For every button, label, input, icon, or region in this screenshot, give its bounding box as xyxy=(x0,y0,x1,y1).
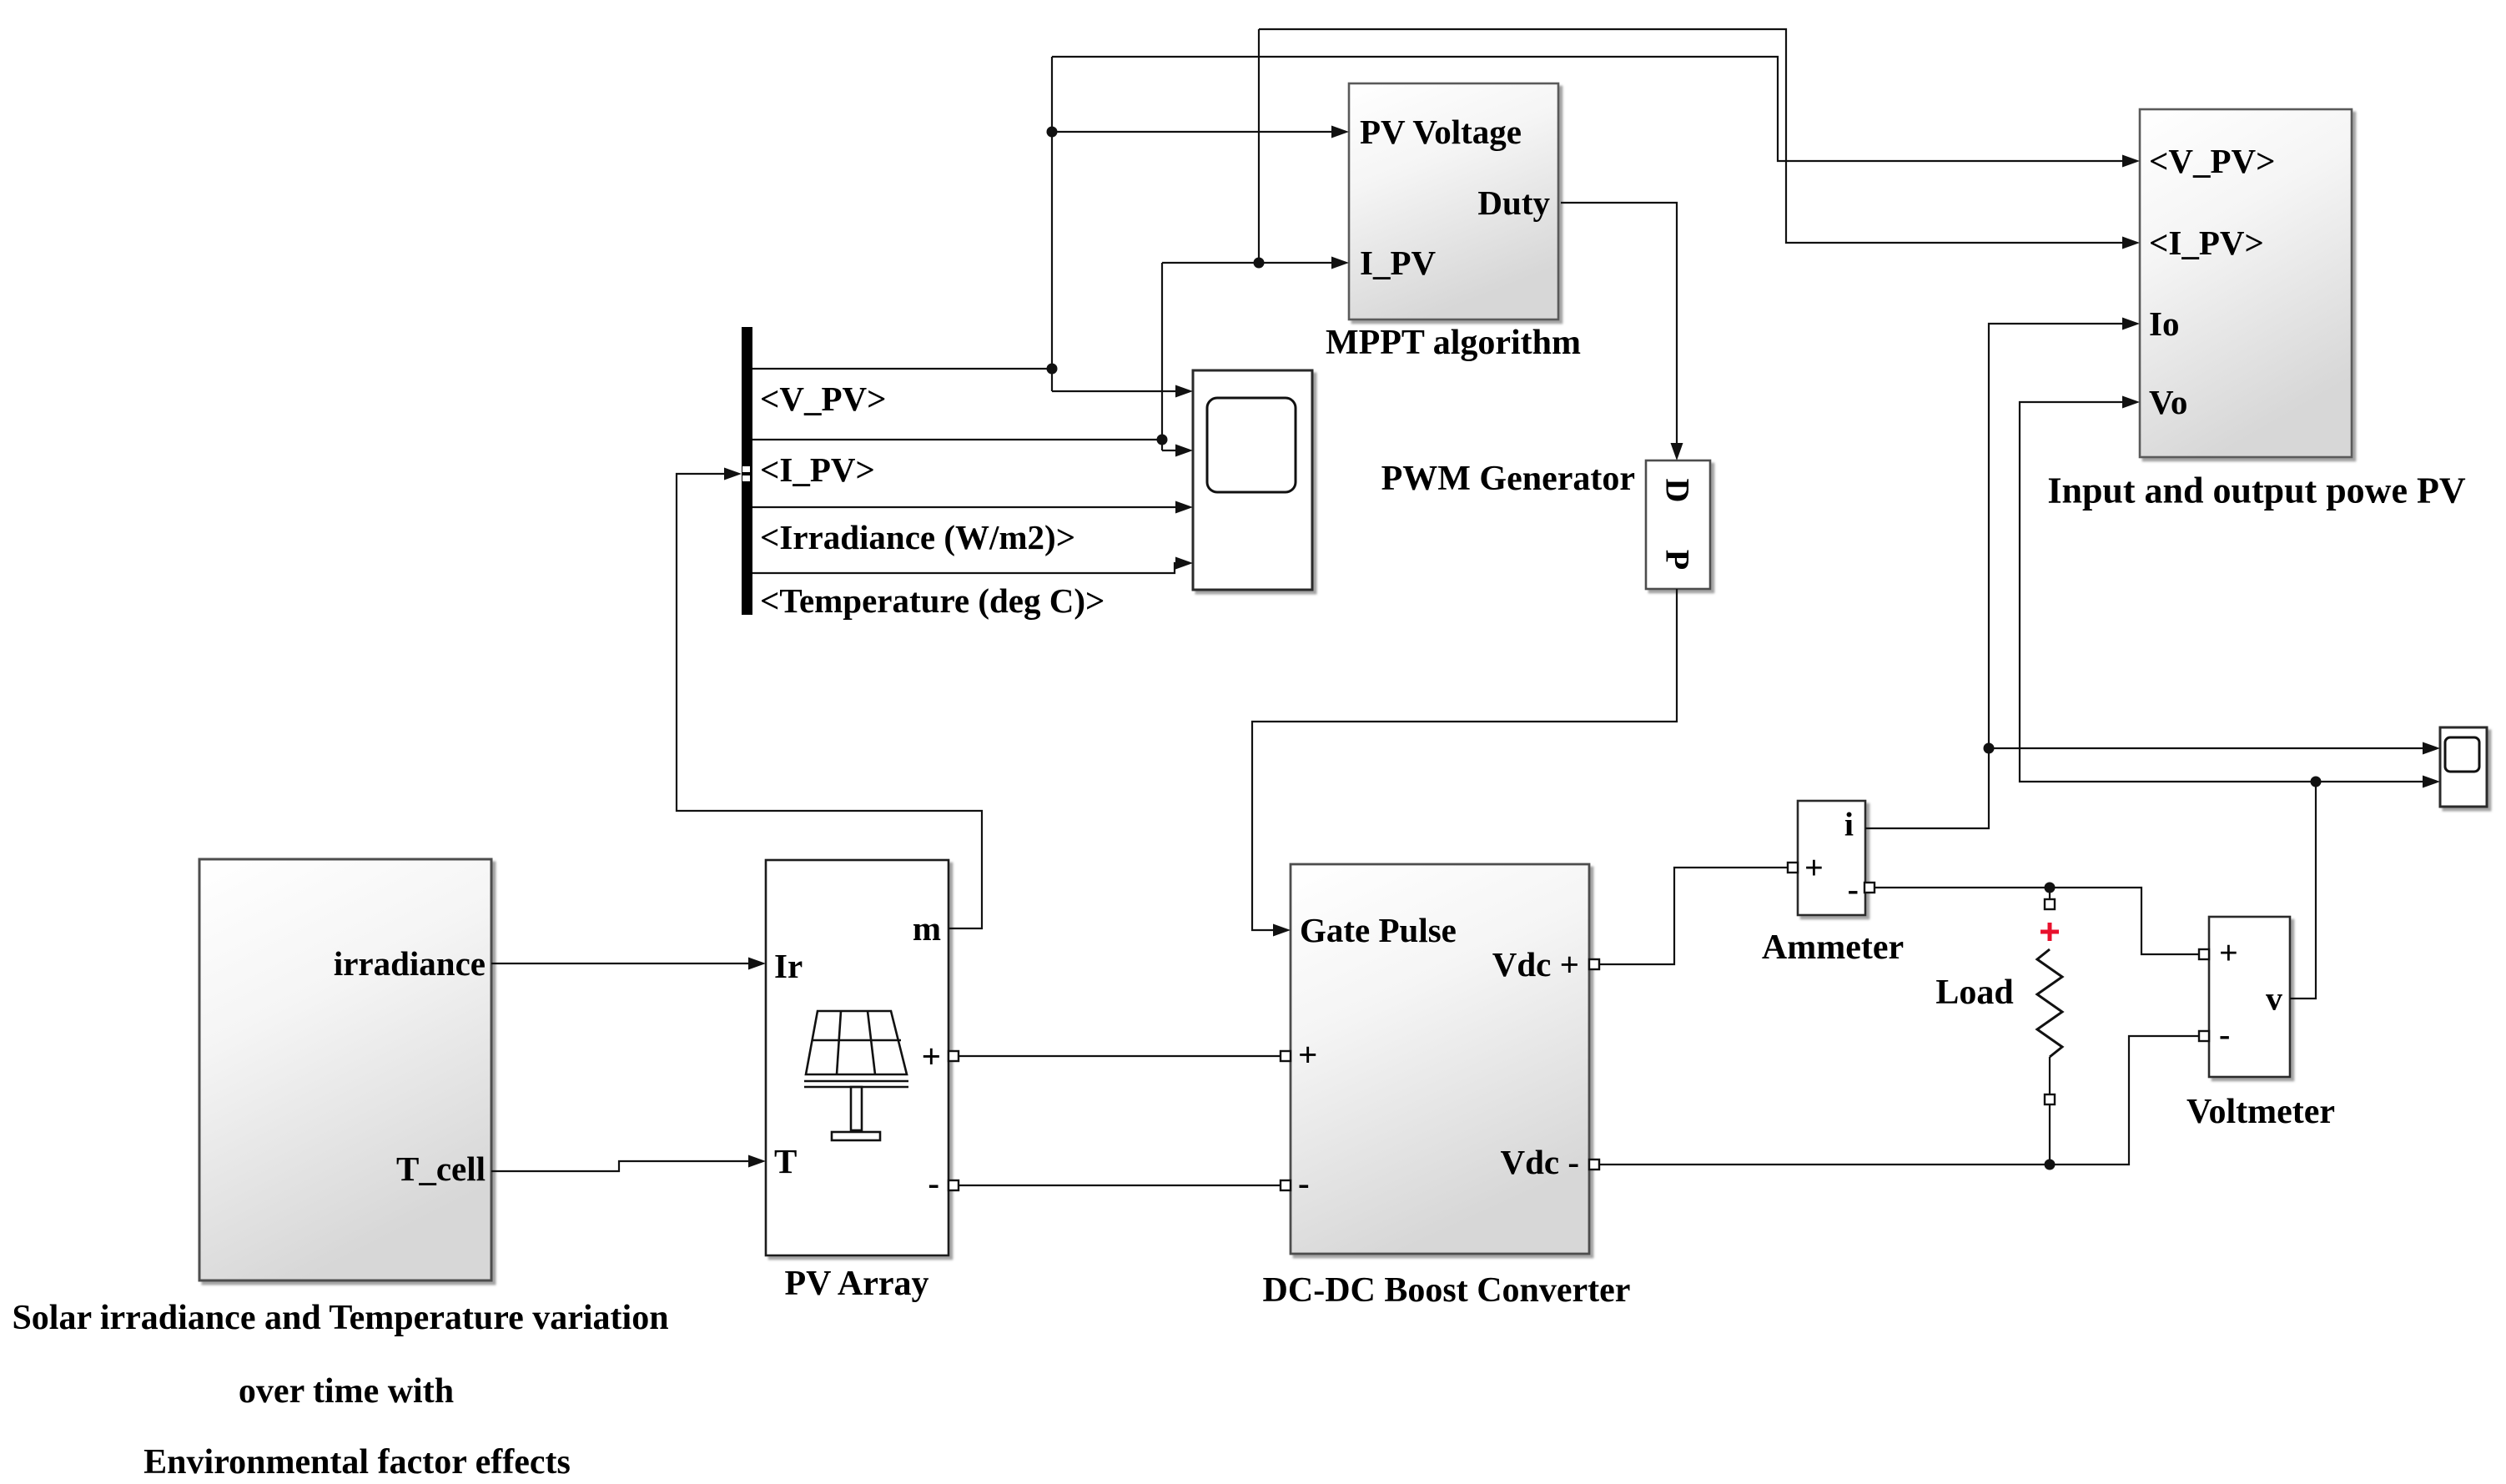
arrow into Scope port 2 xyxy=(1175,445,1193,457)
wire: Vdc- to Voltmeter - xyxy=(1589,1036,2204,1165)
svg-text:Vdc -: Vdc - xyxy=(1500,1143,1579,1181)
port square Voltmeter - xyxy=(2199,1031,2209,1041)
svg-text:+: + xyxy=(1804,849,1824,887)
svg-text:D: D xyxy=(1659,479,1697,503)
port square DC-DC - xyxy=(1281,1180,1291,1190)
port square Vdc+ xyxy=(1589,959,1599,969)
wire: I_PV to MPPT I_PV xyxy=(1162,262,1344,264)
wire: I_PV vertical to top run xyxy=(1258,29,1260,263)
wire: bus <V_PV> signal xyxy=(752,368,1052,370)
svg-text:PV Voltage: PV Voltage xyxy=(1360,113,1522,151)
block: Scope1 (small) xyxy=(2440,727,2487,807)
arrow into Io xyxy=(2122,318,2140,330)
block: Ammeter xyxy=(1798,801,1865,915)
wire junction xyxy=(2311,777,2322,787)
wire junction xyxy=(2045,1160,2056,1170)
svg-text:T_cell: T_cell xyxy=(396,1149,486,1188)
svg-text:Environmental factor effects: Environmental factor effects xyxy=(143,1443,571,1481)
arrow into Vo xyxy=(2122,396,2140,409)
wire: load bottom lead xyxy=(2049,1057,2051,1094)
arrow into T xyxy=(748,1155,766,1168)
svg-text:irradiance: irradiance xyxy=(334,944,486,983)
svg-text:<Temperature (deg C)>: <Temperature (deg C)> xyxy=(760,581,1105,620)
resistor zigzag xyxy=(2037,949,2062,1057)
svg-text:DC-DC Boost Converter: DC-DC Boost Converter xyxy=(1263,1271,1631,1310)
wire: v to Vo xyxy=(2020,402,2316,782)
svg-text:over time with: over time with xyxy=(239,1372,454,1411)
wire: irradiance to PV Array Ir xyxy=(491,963,761,964)
arrow into Scope port 1 xyxy=(1175,385,1193,398)
wire: load top stub xyxy=(2049,888,2051,899)
PV Array solar panel icon xyxy=(804,1011,908,1140)
svg-text:-: - xyxy=(928,1164,939,1202)
port square DC-DC + xyxy=(1281,1051,1291,1061)
wire: bus <Irradiance> to Scope port 3 xyxy=(752,506,1188,508)
svg-text:<V_PV>: <V_PV> xyxy=(2149,142,2276,180)
wire: V_PV to MPPT PV Voltage xyxy=(1052,131,1344,133)
wire: I_PV top run to power block xyxy=(1259,29,2135,243)
svg-text:Load: Load xyxy=(1935,973,2013,1012)
wire: bus <I_PV> signal xyxy=(752,439,1162,440)
block: PV Array xyxy=(766,860,949,1255)
svg-text:I_PV: I_PV xyxy=(1360,244,1437,282)
port square PV Array + xyxy=(949,1051,959,1061)
wire junction xyxy=(1047,364,1058,375)
svg-text:<I_PV>: <I_PV> xyxy=(2149,224,2264,262)
port square Load bottom xyxy=(2045,1094,2055,1104)
svg-text:Vo: Vo xyxy=(2149,383,2187,421)
arrow into <V_PV> xyxy=(2122,155,2140,168)
wire junction xyxy=(1254,258,1265,269)
wire junction xyxy=(2045,883,2056,893)
port square Vdc- xyxy=(1589,1160,1599,1170)
svg-text:Solar irradiance and Temperatu: Solar irradiance and Temperature variati… xyxy=(12,1299,668,1337)
bus selector input port notch xyxy=(742,466,750,472)
arrow into I_PV xyxy=(1331,257,1349,269)
wire: V_PV top run to power block xyxy=(1052,57,2135,161)
arrow into Scope port 4 xyxy=(1175,557,1193,570)
svg-text:m: m xyxy=(913,909,941,948)
block: Solar irradiance and Temperature variation subsystem xyxy=(199,859,491,1280)
svg-text:P: P xyxy=(1659,550,1697,570)
arrow into PWM D input xyxy=(1671,443,1683,460)
wire junction xyxy=(1047,127,1058,138)
svg-text:Voltmeter: Voltmeter xyxy=(2186,1093,2335,1131)
svg-text:Ir: Ir xyxy=(774,947,803,985)
small scope screen icon xyxy=(2445,737,2479,772)
wire: PV Array - to DC-DC - xyxy=(949,1185,1291,1186)
wire: MPPT Duty to PWM Generator D xyxy=(1561,203,1677,455)
wire: V_PV vertical net xyxy=(1051,57,1053,391)
wire: PV Array m to Bus Selector xyxy=(677,474,982,928)
wire: I_PV vertical net xyxy=(1161,263,1163,450)
svg-text:PWM Generator: PWM Generator xyxy=(1381,460,1635,498)
port square Ammeter + xyxy=(1788,863,1798,873)
scope screen icon xyxy=(1207,398,1296,492)
port square Voltmeter + xyxy=(2199,949,2209,959)
wire: branch to Scope1 port 1 xyxy=(1989,747,2435,749)
svg-text:PV Array: PV Array xyxy=(784,1265,928,1303)
arrow into Scope1 port 2 xyxy=(2423,776,2440,788)
arrow into PV Voltage xyxy=(1331,126,1349,138)
wire: Voltmeter v up xyxy=(2290,782,2316,999)
arrow into Ir xyxy=(748,958,766,970)
bus selector bar xyxy=(742,327,752,615)
block: PWM Generator xyxy=(1646,460,1710,589)
wire: Vdc+ to Ammeter + xyxy=(1589,868,1793,964)
svg-text:Input and output powe PV: Input and output powe PV xyxy=(2047,470,2465,511)
arrow into Scope port 3 xyxy=(1175,501,1193,514)
wire: branch to Scope1 port 2 xyxy=(2316,781,2435,782)
svg-text:MPPT algorithm: MPPT algorithm xyxy=(1326,324,1581,362)
svg-text:-: - xyxy=(1298,1164,1310,1202)
arrow into <I_PV> xyxy=(2122,237,2140,249)
svg-text:+: + xyxy=(2219,934,2238,972)
block: DC-DC Boost Converter xyxy=(1291,864,1589,1254)
wire: Ammeter i to Io xyxy=(1865,324,2135,828)
load red plus sign xyxy=(2041,923,2059,941)
svg-text:T: T xyxy=(774,1142,797,1180)
wire: PV Array + to DC-DC + xyxy=(949,1055,1291,1057)
arrow into Scope1 port 1 xyxy=(2423,742,2440,755)
wire: bus <Temperature> to Scope port 4 xyxy=(752,563,1188,573)
svg-text:-: - xyxy=(2219,1016,2230,1054)
wire: I_PV to Scope port 2 xyxy=(1162,450,1188,451)
wire: Ammeter - to Voltmeter + xyxy=(1869,888,2204,954)
svg-text:v: v xyxy=(2266,980,2282,1018)
svg-text:Gate Pulse: Gate Pulse xyxy=(1300,911,1457,949)
block: Voltmeter xyxy=(2209,917,2290,1077)
port square PV Array - xyxy=(949,1180,959,1190)
arrow into Gate Pulse xyxy=(1273,924,1291,937)
svg-text:Io: Io xyxy=(2149,304,2179,343)
svg-text:Duty: Duty xyxy=(1477,184,1550,222)
svg-text:+: + xyxy=(922,1037,941,1075)
svg-text:-: - xyxy=(1848,871,1859,908)
svg-text:+: + xyxy=(1298,1035,1317,1074)
svg-text:<Irradiance (W/m2)>: <Irradiance (W/m2)> xyxy=(760,518,1075,556)
block: Scope xyxy=(1193,370,1312,590)
wire junction xyxy=(1157,435,1168,445)
svg-text:i: i xyxy=(1844,806,1854,843)
port square Load top xyxy=(2045,899,2055,909)
arrow into bus selector xyxy=(724,468,742,480)
wire: load bottom stub xyxy=(2049,1104,2051,1165)
port square Ammeter - xyxy=(1864,883,1874,893)
wire: V_PV to Scope port 1 xyxy=(1052,390,1188,392)
block: MPPT algorithm xyxy=(1349,83,1558,319)
wire: T_cell to PV Array T xyxy=(491,1161,761,1171)
wire: PWM P to DC-DC Gate Pulse xyxy=(1252,589,1677,930)
svg-text:Ammeter: Ammeter xyxy=(1762,928,1904,967)
svg-text:Vdc +: Vdc + xyxy=(1492,945,1579,983)
svg-text:<I_PV>: <I_PV> xyxy=(760,450,875,489)
block: Input and output powe PV xyxy=(2140,109,2352,457)
wire junction xyxy=(1984,743,1995,754)
svg-text:<V_PV>: <V_PV> xyxy=(760,380,887,418)
